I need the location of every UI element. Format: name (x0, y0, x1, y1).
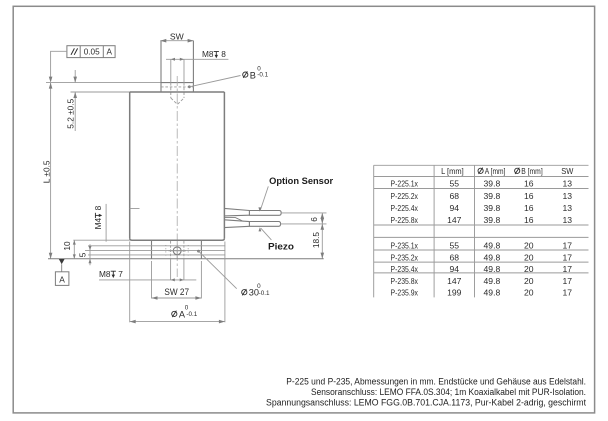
dimension 10 (base height) (62, 240, 76, 259)
svg-text:17: 17 (563, 276, 573, 286)
svg-text:A: A (59, 275, 65, 285)
dimension 5.2 ±0.5 (stud height) (66, 70, 77, 131)
svg-text:6: 6 (309, 217, 319, 222)
svg-text:18.5: 18.5 (311, 232, 321, 249)
svg-text:10: 10 (62, 241, 72, 251)
label Piezo with leader (259, 227, 295, 251)
svg-text:55: 55 (450, 240, 460, 250)
table row P-235.1x (391, 240, 573, 250)
label Option Sensor with leader (258, 176, 333, 212)
svg-text:SW 27: SW 27 (164, 287, 189, 297)
dimension dia A 0/-0.1 (130, 242, 225, 324)
table row P-235.2x (391, 253, 573, 263)
svg-text:49.8: 49.8 (484, 240, 501, 250)
svg-text:55: 55 (450, 179, 460, 189)
svg-text:5: 5 (78, 252, 88, 257)
piezo cable (lower) (224, 220, 326, 228)
svg-text:P-235.9x: P-235.9x (391, 287, 419, 297)
svg-text:13: 13 (563, 215, 573, 225)
svg-text:17: 17 (563, 253, 573, 263)
svg-text:147: 147 (447, 215, 462, 225)
svg-text:M8: M8 (99, 269, 111, 279)
svg-text:L ±0.5: L ±0.5 (41, 160, 51, 183)
feature control frame // 0.05 A (67, 46, 115, 58)
dimension M8 depth 7 (bottom tapped hole) (99, 259, 196, 282)
table row P-235.4x (391, 264, 573, 274)
svg-text:39.8: 39.8 (484, 179, 501, 189)
svg-text:M8: M8 (202, 49, 214, 59)
svg-text:Option Sensor: Option Sensor (269, 176, 333, 186)
svg-text:16: 16 (524, 191, 534, 201)
svg-text:8: 8 (93, 205, 103, 210)
svg-text:94: 94 (450, 264, 460, 274)
svg-text:7: 7 (118, 269, 123, 279)
svg-text:68: 68 (450, 253, 460, 263)
svg-text:68: 68 (450, 191, 460, 201)
dimension 6 (cable spacing) (309, 213, 324, 224)
svg-text:Sensoranschluss: LEMO FFA.0S.3: Sensoranschluss: LEMO FFA.0S.304; 1m Koa… (311, 387, 586, 397)
datum A symbol (55, 259, 69, 285)
side hole circle on base front (169, 244, 187, 259)
table row P-225.2x (391, 191, 573, 201)
svg-text:-0.1: -0.1 (257, 72, 268, 79)
svg-text:39.8: 39.8 (484, 215, 501, 225)
svg-text:20: 20 (524, 276, 534, 286)
bottom face line (48, 258, 324, 260)
svg-text:P-225 und P-235, Abmessungen i: P-225 und P-235, Abmessungen in mm. Ends… (286, 377, 586, 387)
svg-text:8: 8 (221, 49, 226, 59)
cable separation notch (224, 218, 243, 222)
svg-text:49.8: 49.8 (484, 276, 501, 286)
table row P-235.9x (391, 287, 573, 297)
svg-text:199: 199 (447, 287, 462, 297)
svg-text:17: 17 (563, 287, 573, 297)
svg-text:39.8: 39.8 (484, 191, 501, 201)
svg-text:A: A (106, 48, 112, 57)
svg-text:Piezo: Piezo (268, 242, 294, 252)
table row P-225.1x (391, 179, 573, 189)
svg-text:P-235.4x: P-235.4x (391, 264, 419, 274)
dimension L ±0.5 (overall length) (41, 83, 52, 259)
extension line body top face (left) (71, 91, 130, 93)
sensor body outline (dia A cylinder) (130, 92, 225, 240)
svg-text:P-225.1x: P-225.1x (391, 179, 419, 189)
base (SW27 flats) sides (151, 240, 153, 259)
dimension 5 (78, 244, 92, 265)
stud / top extension (dia B) outline (161, 41, 193, 92)
label dia B 0/-0.1 with leader dot (188, 65, 269, 88)
part vertical centerline (176, 76, 178, 277)
svg-text:0.05: 0.05 (84, 48, 100, 57)
table row P-225.4x (391, 203, 573, 213)
svg-text:-0.1: -0.1 (186, 311, 197, 318)
svg-text:20: 20 (524, 287, 534, 297)
svg-text:P-225.2x: P-225.2x (391, 191, 419, 201)
svg-text:16: 16 (524, 215, 534, 225)
base top edge / body bottom extension (73, 239, 129, 241)
specification table (374, 165, 589, 297)
dimension SW (top stud wrench flats) (160, 31, 193, 42)
svg-text:Spannungsanschluss: LEMO FGG.0: Spannungsanschluss: LEMO FGG.0B.701.CJA.… (266, 398, 586, 408)
svg-text:13: 13 (563, 203, 573, 213)
label M4 depth 8 (side tapped hole) (93, 204, 139, 242)
svg-text:P-235.1x: P-235.1x (391, 240, 419, 250)
svg-text:49.8: 49.8 (484, 264, 501, 274)
svg-text:5.2 ±0.5: 5.2 ±0.5 (66, 98, 76, 128)
svg-text:16: 16 (524, 203, 534, 213)
svg-text:20: 20 (524, 240, 534, 250)
svg-text:A [mm]: A [mm] (485, 166, 506, 176)
svg-text:B [mm]: B [mm] (521, 166, 542, 176)
svg-text:39.8: 39.8 (484, 203, 501, 213)
option sensor cable (upper) (224, 208, 326, 216)
svg-text:P-225.8x: P-225.8x (391, 215, 419, 225)
svg-text:SW: SW (170, 31, 185, 41)
svg-text:16: 16 (524, 179, 534, 189)
svg-text:P-225.4x: P-225.4x (391, 203, 419, 213)
extension line stud top face (left) (46, 82, 161, 84)
svg-text:49.8: 49.8 (484, 287, 501, 297)
svg-text:13: 13 (563, 179, 573, 189)
table row P-225.8x (391, 215, 573, 225)
svg-text:P-235.2x: P-235.2x (391, 253, 419, 263)
svg-text:P-235.8x: P-235.8x (391, 276, 419, 286)
svg-text:49.8: 49.8 (484, 253, 501, 263)
svg-text:17: 17 (563, 240, 573, 250)
table header row (441, 166, 574, 176)
svg-text:M4: M4 (93, 217, 103, 229)
svg-text:94: 94 (450, 203, 460, 213)
M8 depth 8 tapped hole, top (166, 49, 228, 104)
svg-text:L [mm]: L [mm] (441, 166, 464, 176)
svg-text:147: 147 (447, 276, 462, 286)
table row P-235.8x (391, 276, 573, 286)
hidden thread lines M8 bottom hole (166, 241, 188, 259)
label dia 30 0/-0.1 with leader dot (197, 250, 270, 298)
svg-text:17: 17 (563, 264, 573, 274)
dimension 18.5 (311, 224, 324, 259)
svg-text:20: 20 (524, 264, 534, 274)
svg-text:B: B (250, 70, 256, 80)
cable channel lines (88, 245, 225, 247)
svg-text:13: 13 (563, 191, 573, 201)
svg-text:-0.1: -0.1 (259, 290, 270, 297)
leader from feature control frame to top face (49, 51, 67, 82)
svg-text:20: 20 (524, 253, 534, 263)
dimension SW 27 (152, 261, 202, 300)
svg-text:SW: SW (561, 166, 574, 176)
